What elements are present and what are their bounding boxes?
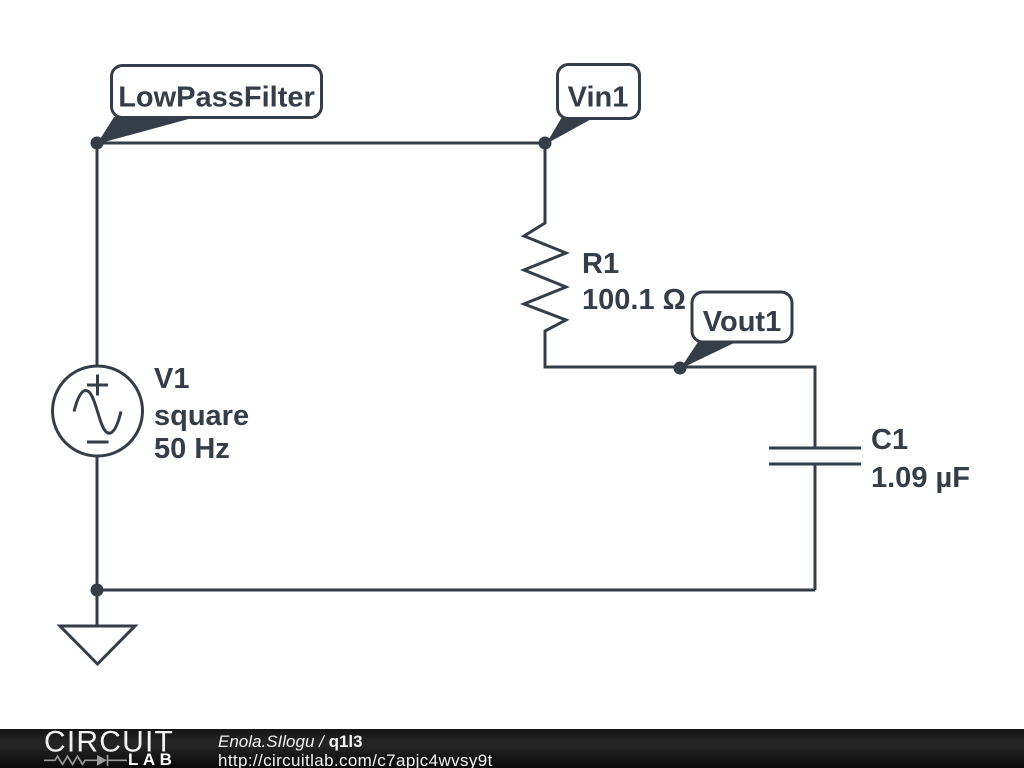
svg-text:LowPassFilter: LowPassFilter xyxy=(118,82,315,114)
svg-text:Vout1: Vout1 xyxy=(703,306,781,338)
svg-text:square: square xyxy=(154,400,249,432)
svg-text:50 Hz: 50 Hz xyxy=(154,433,230,465)
svg-text:V1: V1 xyxy=(154,363,189,395)
svg-text:C1: C1 xyxy=(871,424,908,456)
svg-text:R1: R1 xyxy=(582,248,619,280)
svg-text:1.09 µF: 1.09 µF xyxy=(871,462,970,494)
svg-text:100.1 Ω: 100.1 Ω xyxy=(582,284,686,316)
svg-text:Vin1: Vin1 xyxy=(568,82,629,114)
svg-text:LAB: LAB xyxy=(128,750,176,768)
